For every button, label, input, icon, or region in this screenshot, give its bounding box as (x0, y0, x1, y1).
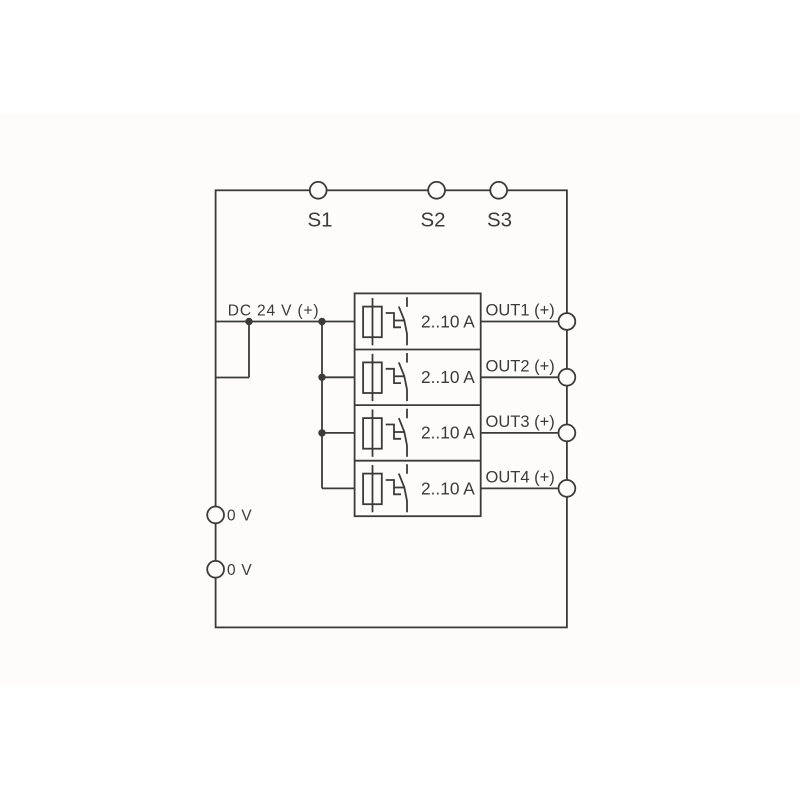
svg-text:2..10 A: 2..10 A (421, 311, 475, 331)
svg-text:S3: S3 (487, 209, 512, 232)
svg-text:2..10 A: 2..10 A (421, 423, 475, 443)
svg-text:OUT4 (+): OUT4 (+) (486, 468, 555, 486)
svg-text:DC 24 V (+): DC 24 V (+) (228, 302, 320, 319)
svg-text:0 V: 0 V (227, 508, 253, 525)
svg-text:OUT2 (+): OUT2 (+) (486, 357, 555, 375)
svg-text:S1: S1 (307, 209, 332, 232)
svg-text:2..10 A: 2..10 A (421, 367, 475, 387)
svg-text:2..10 A: 2..10 A (421, 478, 475, 498)
svg-text:OUT3 (+): OUT3 (+) (486, 413, 555, 431)
svg-text:S2: S2 (420, 209, 445, 232)
svg-text:OUT1 (+): OUT1 (+) (486, 302, 555, 320)
svg-text:0 V: 0 V (227, 562, 253, 579)
